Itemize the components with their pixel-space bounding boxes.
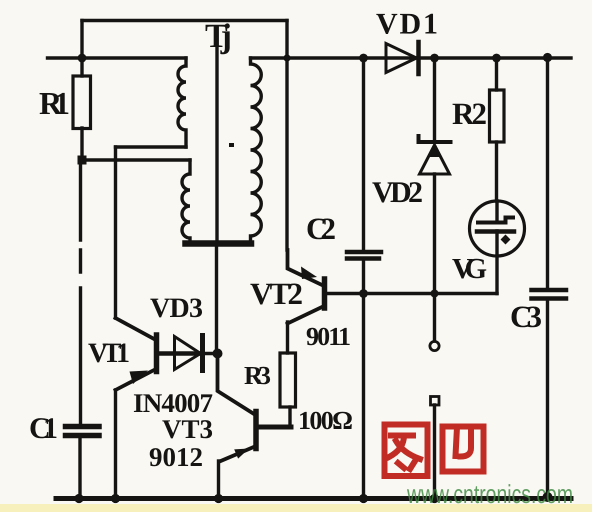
node R1 bottom row [78, 156, 87, 165]
transistor VT3 base lead [257, 425, 291, 430]
resistor R2 body [490, 90, 505, 142]
wire C1 to ground bus [78, 436, 81, 498]
node R2 top [492, 54, 501, 63]
hanzi SI inner strokes [456, 427, 472, 457]
svg-text:www.cntronics.com: www.cntronics.com [406, 479, 573, 509]
transistor VT2 collector lead [288, 250, 323, 285]
transformer Tj core line [215, 48, 218, 240]
resistor R2 top lead [495, 58, 498, 90]
VG inner bottom plate [477, 229, 514, 234]
svg-text:VT1: VT1 [88, 338, 130, 369]
zener VD2 bottom lead [433, 174, 436, 341]
node VD2 bus cross [431, 290, 439, 298]
wire C2 bottom to bus [362, 259, 365, 294]
transistor VT2 base bar [322, 279, 328, 308]
svg-text:100Ω: 100Ω [298, 406, 353, 435]
bottom yellow strip [0, 504, 592, 512]
svg-text:R2: R2 [452, 96, 487, 131]
svg-text:R3: R3 [244, 361, 271, 390]
figure caption 图四 drawn strokes [385, 425, 484, 477]
terminal upper circle [430, 341, 439, 350]
transformer Tj bottom bar [186, 240, 252, 247]
diode VD1 triangle [386, 44, 417, 73]
hanzi SI box [443, 427, 484, 472]
wire left rail to VT1 [114, 147, 117, 318]
wire top bus y=20 [82, 19, 287, 22]
wire left drop to R1 rail [80, 21, 83, 59]
svg-text:C1: C1 [29, 412, 58, 445]
wire VT2 base to y=293.5 bus [326, 292, 497, 295]
svg-text:VT2: VT2 [250, 276, 303, 311]
transformer Tj primary upper winding [178, 58, 186, 147]
diode VD3 triangle [175, 337, 201, 370]
svg-text:VD1: VD1 [376, 8, 438, 41]
svg-text:C3: C3 [510, 299, 542, 334]
wire main horizontal left segment y=58 [48, 56, 187, 59]
node ground mid rail [359, 494, 368, 503]
hanzi TU box [385, 425, 428, 477]
node C2 top [359, 54, 368, 63]
capacitor C2 [347, 252, 381, 259]
wire junction row y=160 [82, 158, 190, 161]
wire main horizontal right segment y=58 [251, 56, 572, 59]
ground bottom bus [56, 496, 571, 501]
svg-text:VD3: VD3 [150, 293, 203, 324]
VG inner top plate with hook [478, 218, 513, 223]
capacitor C1 [66, 427, 100, 436]
svg-text:9012: 9012 [149, 442, 203, 472]
node VT2 rail top [283, 54, 290, 61]
zener VD2 cathode bar with tick [419, 136, 451, 142]
node ground C1 [74, 494, 83, 503]
capacitor C3 top lead rail [546, 58, 549, 288]
wire node to VT3 collector [218, 353, 255, 414]
core stray dot [229, 143, 234, 147]
svg-text:VG: VG [452, 253, 487, 285]
VG center electrode line [495, 201, 498, 294]
wire VT1 emitter rail to ground [114, 390, 117, 497]
resistor R2 bottom lead [495, 142, 498, 201]
transistor VT1 emitter arrow [130, 371, 149, 385]
transistor VT3 emitter arrow [234, 449, 249, 459]
terminal lower square [431, 397, 440, 406]
svg-text:VD2: VD2 [372, 176, 423, 209]
transformer Tj primary lower winding [182, 160, 190, 241]
wire left rail C1 branch [79, 160, 82, 424]
capacitor C3 [532, 290, 567, 299]
wire VD3 cathode to node [204, 352, 218, 355]
node VD3 cathode junction [213, 349, 223, 359]
node C3 top [543, 53, 552, 62]
node C2 bottom bus [359, 289, 368, 298]
hanzi TU inner strokes [389, 436, 420, 470]
transistor VT3 emitter lead [220, 446, 257, 462]
resistor R1 body [73, 76, 91, 129]
svg-text:C2: C2 [306, 211, 336, 246]
resistor R3 bottom lead [288, 407, 291, 427]
node VD2 top [430, 54, 439, 63]
transistor VT2 emitter lead [288, 306, 325, 324]
wire right drop x=287 [285, 21, 288, 59]
diode VD3 anode lead [158, 351, 202, 356]
transistor VT1 emitter lead [116, 369, 157, 390]
resistor R3 top lead from VT2 emitter [286, 322, 289, 353]
regulator tube VG circle [470, 201, 525, 256]
transistor VT3 base bar [253, 412, 259, 449]
transistor VT1 base bar [154, 335, 160, 372]
svg-text:VT3: VT3 [162, 414, 213, 444]
transistor VT1 collector lead [116, 318, 157, 340]
zener VD2 triangle [420, 145, 450, 174]
svg-text:R1: R1 [39, 85, 70, 121]
wire mid rail to ground [362, 294, 365, 498]
wire VT3 emitter to ground [217, 461, 220, 497]
capacitor C3 bottom lead to ground [546, 299, 549, 498]
zener VD2 top lead [433, 58, 436, 140]
resistor R1 leads [80, 58, 83, 76]
wire center tap down to VD3 node [215, 247, 218, 354]
svg-text:Tj: Tj [205, 18, 232, 55]
svg-text:9011: 9011 [306, 322, 351, 351]
wire C2 top from bus [362, 58, 365, 250]
resistor R3 body [280, 353, 296, 407]
diode VD1 anode lead region is bus; cathode bar [416, 42, 421, 74]
transformer Tj secondary winding [251, 58, 262, 241]
node ground terminal rail [430, 494, 439, 503]
transistor VT2 emitter arrow [301, 267, 317, 280]
diode VD3 cathode bar [200, 336, 205, 371]
transistor VT2 collector rail from top bus [285, 58, 288, 250]
VG polarity diamond [501, 235, 511, 245]
node R1 top [78, 54, 87, 63]
node ground VT1 [111, 494, 120, 503]
zener VD2 apex blob [427, 143, 442, 157]
wire lower terminal to ground [433, 405, 436, 497]
node ground VT3 [214, 494, 223, 503]
wire primary-upper bottom to left rail [116, 145, 187, 148]
node ground C3 [543, 492, 553, 502]
